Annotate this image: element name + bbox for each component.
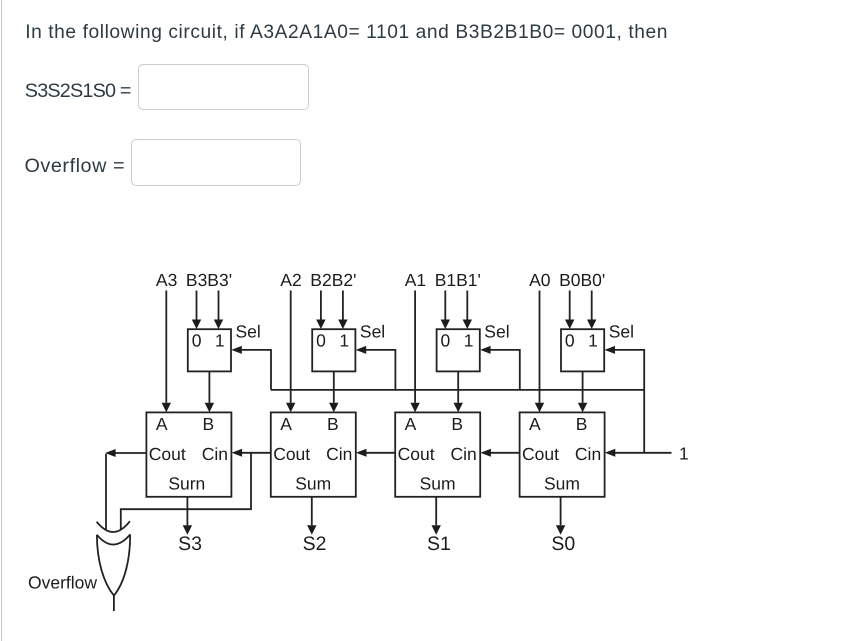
svg-text:A1: A1 bbox=[405, 270, 426, 290]
wire select bus bbox=[271, 389, 644, 391]
svg-text:Sel: Sel bbox=[236, 321, 261, 341]
svg-text:A: A bbox=[529, 414, 541, 434]
question title text bbox=[25, 23, 668, 42]
full adder FA3 bbox=[146, 412, 231, 496]
svg-text:Sum: Sum bbox=[544, 474, 580, 494]
wire Sum output of FA1 to node S1 bbox=[432, 497, 441, 535]
svg-text:1: 1 bbox=[339, 331, 349, 351]
xor gate G1 overflow detector bbox=[97, 521, 131, 595]
wire B3 into mux pin 0 bbox=[192, 291, 201, 330]
svg-text:0: 0 bbox=[316, 331, 326, 351]
full adder FA1 bbox=[395, 412, 480, 496]
wire B2 into mux pin 0 bbox=[316, 291, 325, 330]
answer label S3S2S1S0 bbox=[25, 82, 131, 102]
wire mux MUX0 output to FA0 pin B bbox=[578, 371, 587, 412]
mux MUX3 (2-to-1 select) bbox=[188, 329, 231, 371]
wire Sel input of MUX2 from select bus bbox=[356, 346, 396, 390]
svg-text:B: B bbox=[576, 414, 588, 434]
svg-text:1: 1 bbox=[679, 444, 689, 464]
svg-text:S2: S2 bbox=[303, 533, 327, 555]
wire Sum output of FA0 to node S0 bbox=[556, 497, 565, 535]
svg-text:0: 0 bbox=[192, 331, 202, 351]
svg-text:Cout: Cout bbox=[149, 444, 186, 464]
svg-text:A: A bbox=[156, 414, 168, 434]
full adder FA2 bbox=[271, 412, 356, 496]
wire Sel input of MUX1 from select bus bbox=[480, 346, 520, 390]
svg-text:Cout: Cout bbox=[398, 444, 435, 464]
left page border bbox=[1, 0, 2, 641]
wire carry c2: Cout FA1 to Cin FA2 bbox=[356, 449, 395, 457]
wire constant 1 into Cin FA0 bbox=[605, 449, 672, 457]
svg-text:Cin: Cin bbox=[575, 444, 601, 464]
svg-text:Surn: Surn bbox=[168, 473, 205, 493]
svg-text:Cout: Cout bbox=[522, 444, 559, 464]
svg-text:A3: A3 bbox=[156, 270, 177, 290]
svg-text:0: 0 bbox=[565, 331, 575, 351]
wire B1' into mux pin 1 bbox=[463, 291, 472, 330]
svg-text:0: 0 bbox=[441, 331, 451, 351]
svg-text:A2: A2 bbox=[280, 270, 301, 290]
wire A3 input bbox=[162, 291, 171, 413]
svg-text:Cin: Cin bbox=[202, 444, 228, 464]
svg-text:Sel: Sel bbox=[360, 321, 385, 341]
svg-text:A: A bbox=[405, 414, 417, 434]
svg-text:B0B0': B0B0' bbox=[559, 270, 605, 290]
svg-text:B1B1': B1B1' bbox=[435, 270, 481, 290]
svg-text:S1: S1 bbox=[427, 533, 451, 555]
svg-text:B: B bbox=[203, 414, 215, 434]
wire carry c1: Cout FA0 to Cin FA1 bbox=[480, 449, 519, 457]
answer input box 1 bbox=[138, 64, 309, 110]
svg-text:Cin: Cin bbox=[451, 444, 477, 464]
wire A0 input bbox=[535, 291, 544, 413]
wire B0' into mux pin 1 bbox=[587, 291, 596, 330]
wire carry c4: Cout FA3 to XOR input 1 bbox=[105, 449, 146, 529]
svg-text:B: B bbox=[327, 414, 339, 434]
svg-text:Sel: Sel bbox=[609, 321, 634, 341]
svg-text:A0: A0 bbox=[529, 270, 551, 290]
svg-text:A: A bbox=[280, 414, 292, 434]
mux MUX1 (2-to-1 select) bbox=[437, 329, 480, 371]
wire B0 into mux pin 0 bbox=[565, 291, 574, 330]
svg-text:S3: S3 bbox=[178, 533, 202, 555]
mux MUX2 (2-to-1 select) bbox=[312, 329, 355, 371]
svg-text:B2B2': B2B2' bbox=[310, 270, 356, 290]
svg-text:Sum: Sum bbox=[420, 474, 456, 494]
svg-text:1: 1 bbox=[215, 331, 225, 351]
svg-text:1: 1 bbox=[464, 331, 474, 351]
wire Sel input of MUX3 from select bus bbox=[231, 346, 271, 390]
wire carry c3: Cout FA2 to Cin FA3 bbox=[232, 449, 271, 457]
wire A2 input bbox=[286, 291, 295, 413]
answer input box 2 bbox=[131, 139, 301, 186]
mux MUX0 (2-to-1 select) bbox=[561, 329, 604, 371]
svg-text:Overflow: Overflow bbox=[28, 572, 97, 592]
wire carry c3 tap to XOR input 2 bbox=[121, 453, 251, 530]
svg-text:Sum: Sum bbox=[295, 474, 331, 494]
svg-text:Cout: Cout bbox=[273, 444, 310, 464]
wire Sel input of MUX0 from constant-1 net bbox=[605, 346, 645, 453]
svg-text:Cin: Cin bbox=[326, 444, 352, 464]
svg-text:Sel: Sel bbox=[484, 321, 509, 341]
svg-text:B3B3': B3B3' bbox=[186, 270, 232, 290]
wire xor G1 output (Overflow) bbox=[113, 596, 115, 611]
wire A1 input bbox=[410, 291, 419, 413]
wire mux MUX1 output to FA1 pin B bbox=[454, 371, 463, 412]
svg-text:S0: S0 bbox=[551, 533, 575, 555]
full adder FA0 bbox=[520, 412, 605, 496]
svg-text:1: 1 bbox=[588, 331, 598, 351]
wire Sum output of FA3 to node S3 bbox=[183, 497, 192, 535]
svg-text:B: B bbox=[451, 414, 463, 434]
wire B2' into mux pin 1 bbox=[338, 291, 347, 330]
wire B3' into mux pin 1 bbox=[214, 291, 223, 330]
answer label Overflow bbox=[25, 157, 126, 177]
wire Sum output of FA2 to node S2 bbox=[307, 497, 316, 535]
wire mux MUX3 output to FA3 pin B bbox=[205, 371, 214, 412]
wire mux MUX2 output to FA2 pin B bbox=[329, 371, 338, 412]
wire B1 into mux pin 0 bbox=[441, 291, 450, 330]
